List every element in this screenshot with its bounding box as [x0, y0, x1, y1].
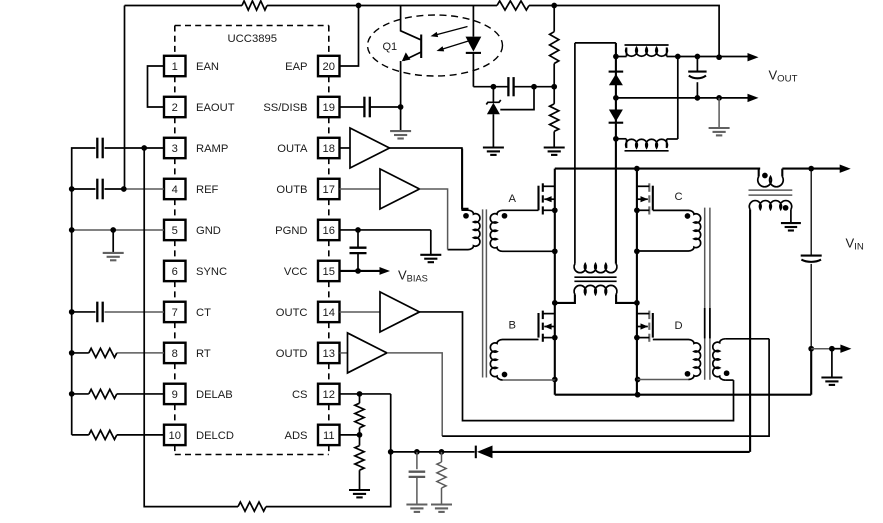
svg-text:20: 20	[323, 61, 335, 73]
svg-text:PGND: PGND	[275, 225, 307, 237]
svg-text:EAP: EAP	[285, 61, 307, 73]
svg-text:REF: REF	[196, 184, 219, 196]
svg-text:C: C	[675, 191, 683, 203]
svg-text:OUTA: OUTA	[277, 143, 308, 155]
svg-text:Q1: Q1	[383, 41, 398, 53]
svg-text:6: 6	[172, 266, 178, 278]
svg-text:9: 9	[172, 389, 178, 401]
svg-text:1: 1	[172, 61, 178, 73]
svg-text:GND: GND	[196, 225, 221, 237]
svg-text:8: 8	[172, 348, 178, 360]
svg-text:2: 2	[172, 102, 178, 114]
svg-text:19: 19	[323, 102, 335, 114]
svg-text:EAN: EAN	[196, 61, 219, 73]
svg-text:12: 12	[323, 389, 335, 401]
svg-text:OUTB: OUTB	[276, 184, 307, 196]
svg-text:OUTD: OUTD	[276, 348, 308, 360]
svg-text:14: 14	[323, 307, 335, 319]
svg-text:VCC: VCC	[284, 266, 308, 278]
svg-text:RAMP: RAMP	[196, 143, 228, 155]
svg-text:OUTC: OUTC	[276, 307, 308, 319]
svg-text:SYNC: SYNC	[196, 266, 227, 278]
svg-text:18: 18	[323, 143, 335, 155]
svg-text:11: 11	[323, 430, 335, 442]
svg-text:CS: CS	[292, 389, 308, 401]
svg-text:7: 7	[172, 307, 178, 319]
svg-text:CT: CT	[196, 307, 211, 319]
svg-text:B: B	[509, 320, 516, 332]
svg-text:15: 15	[323, 266, 335, 278]
svg-text:17: 17	[323, 184, 335, 196]
svg-text:5: 5	[172, 225, 178, 237]
svg-text:3: 3	[172, 143, 178, 155]
svg-text:4: 4	[172, 184, 178, 196]
svg-text:13: 13	[323, 348, 335, 360]
svg-text:SS/DISB: SS/DISB	[263, 102, 307, 114]
svg-text:10: 10	[169, 430, 181, 442]
svg-text:ADS: ADS	[284, 430, 307, 442]
svg-text:DELAB: DELAB	[196, 389, 233, 401]
svg-text:DELCD: DELCD	[196, 430, 234, 442]
svg-text:A: A	[509, 193, 517, 205]
svg-text:EAOUT: EAOUT	[196, 102, 235, 114]
svg-text:RT: RT	[196, 348, 211, 360]
svg-text:D: D	[675, 320, 683, 332]
svg-text:UCC3895: UCC3895	[227, 33, 277, 45]
svg-text:16: 16	[323, 225, 335, 237]
